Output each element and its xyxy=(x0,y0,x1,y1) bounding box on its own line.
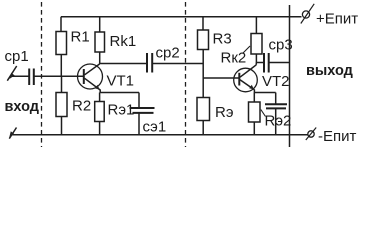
wire ср3 to output line xyxy=(269,62,290,64)
resistor Rэ2 xyxy=(249,93,261,135)
dashed separator middle xyxy=(185,2,187,147)
wire collector VT1 to cap ср2 xyxy=(100,63,147,65)
transistor VT1 xyxy=(78,64,103,93)
capacitor ср3 xyxy=(264,53,269,73)
transistor VT2 xyxy=(234,65,258,93)
capacitor сэ2 xyxy=(265,93,287,135)
svg-text:R2: R2 xyxy=(72,98,91,115)
terminal X2 common xyxy=(9,128,16,139)
svg-text:выход: выход xyxy=(306,63,353,79)
resistor Rэ1 xyxy=(95,93,105,135)
svg-text:Rэ2: Rэ2 xyxy=(265,113,292,130)
svg-text:R1: R1 xyxy=(71,29,90,46)
svg-text:сэ1: сэ1 xyxy=(143,118,167,135)
svg-text:ср2: ср2 xyxy=(156,45,180,62)
resistor Rk1 xyxy=(95,17,105,64)
svg-text:R3: R3 xyxy=(213,31,232,48)
resistor Rэ xyxy=(197,98,210,135)
capacitor ср1 xyxy=(29,69,34,86)
svg-text:Rк2: Rк2 xyxy=(221,50,247,67)
wire ср2 to divider node xyxy=(152,63,203,65)
terminal +Епит xyxy=(301,4,314,24)
wire emitter VT2 node xyxy=(254,92,275,94)
wire +supply top rail xyxy=(61,16,302,18)
resistor Rк2 xyxy=(251,17,262,63)
resistor R2 xyxy=(56,76,67,135)
svg-text:Rэ: Rэ xyxy=(215,104,234,121)
wire collector VT2 junction xyxy=(255,63,257,65)
svg-text:VT2: VT2 xyxy=(262,73,290,90)
svg-text:Rk1: Rk1 xyxy=(110,33,137,50)
wire input to cap xyxy=(12,75,29,77)
svg-text:вход: вход xyxy=(5,99,40,115)
wire -supply bottom rail xyxy=(12,134,309,136)
leader line Rэ2 xyxy=(261,110,266,117)
wire base VT2 xyxy=(203,77,239,79)
resistor R1 xyxy=(56,17,67,76)
leader line Rк2 xyxy=(243,46,250,53)
svg-text:+Епит: +Епит xyxy=(316,11,358,28)
capacitor сэ1 xyxy=(130,93,155,135)
resistor R3 xyxy=(198,17,209,98)
terminal X1 input xyxy=(7,66,16,81)
svg-text:ср3: ср3 xyxy=(269,37,293,54)
svg-text:Rэ1: Rэ1 xyxy=(108,102,135,119)
wire emitter VT1 node xyxy=(100,92,139,94)
wire base VT1 xyxy=(34,75,84,77)
terminal -Епит xyxy=(306,128,316,141)
svg-text:-Епит: -Епит xyxy=(318,128,357,145)
svg-text:ср1: ср1 xyxy=(5,48,29,65)
dashed separator left xyxy=(41,2,43,147)
svg-text:VT1: VT1 xyxy=(107,73,135,90)
capacitor ср2 xyxy=(147,53,152,73)
wire output vertical line xyxy=(289,5,291,147)
